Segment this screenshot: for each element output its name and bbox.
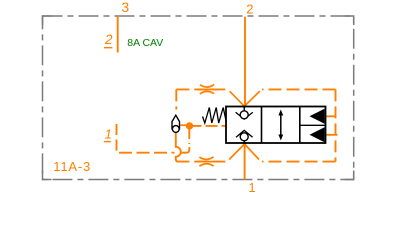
check triangle (right cell, top)	[310, 109, 325, 124]
orifice restriction (bottom)	[198, 157, 219, 166]
right cell mid divider	[300, 124, 326, 126]
junction dot	[186, 122, 193, 129]
svg-text:1: 1	[105, 127, 112, 142]
port 2 line (vertical to valve top)	[244, 17, 246, 106]
check triangle (right cell, bottom)	[310, 127, 325, 142]
envelope right edge (dashed)	[335, 89, 337, 161]
label 2 (left, italic underlined)	[104, 32, 113, 48]
pilot drop from junction to port-1 pilot run	[188, 129, 190, 144]
pilot run (horizontal dashed, hops under left edge)	[119, 152, 186, 154]
assembly boundary frame (gray dash-dot)	[43, 16, 354, 180]
svg-text:8A CAV: 8A CAV	[127, 37, 163, 49]
check ball symbol (bottom, left cell)	[236, 130, 253, 143]
spring	[203, 108, 227, 124]
port 1 pilot stub (left)	[117, 124, 121, 153]
svg-text:3: 3	[121, 0, 129, 15]
pilot ball-seat check (inline on left edge)	[172, 115, 180, 132]
port 1 line (vertical from valve bottom)	[244, 144, 246, 180]
envelope bottom edge (dashed, with rays gap)	[176, 161, 335, 163]
svg-text:1: 1	[248, 180, 255, 195]
envelope left edge upper segment	[175, 89, 177, 109]
svg-text:2: 2	[104, 32, 113, 47]
orifice restriction (top)	[198, 85, 219, 94]
label 1 (left, italic underlined)	[104, 127, 112, 142]
node tick at valve bottom	[243, 142, 245, 144]
cartridge valve body	[226, 107, 326, 144]
pilot line junction to valve (under spring, dashed)	[190, 125, 227, 127]
flow arrow (middle cell, double headed)	[278, 110, 283, 141]
connection rays at valve bottom node	[229, 144, 259, 160]
connection rays at valve top node	[230, 91, 260, 106]
envelope left edge lower segment with crossover hop	[176, 133, 181, 162]
svg-text:11A-3: 11A-3	[53, 159, 91, 174]
valve position divider 1	[261, 107, 263, 144]
triangle port connectors (right)	[327, 116, 338, 135]
port 3 line (top-left vertical)	[117, 16, 119, 53]
check ball symbol (top, left cell)	[236, 107, 253, 119]
node tick at valve top	[243, 106, 245, 108]
svg-text:2: 2	[246, 2, 253, 17]
valve position divider 2	[299, 107, 301, 144]
pilot tap from ball seat to junction	[181, 124, 187, 126]
envelope top edge (dashed, with rays gap)	[176, 88, 335, 90]
